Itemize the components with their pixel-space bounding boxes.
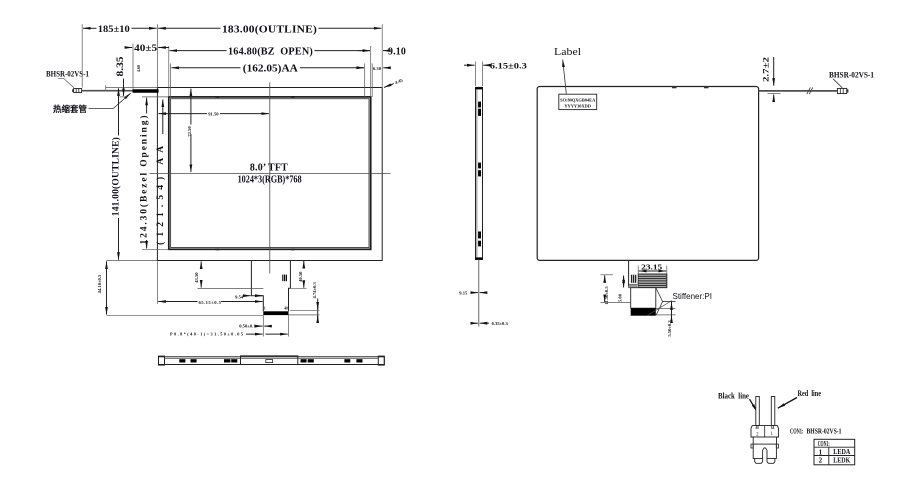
svg-text:40.50: 40.50 [298, 271, 303, 282]
svg-text:YYYY30XDD: YYYY30XDD [564, 104, 591, 109]
svg-text:1024*3(RGB)*768: 1024*3(RGB)*768 [238, 175, 302, 186]
svg-text:9.10: 9.10 [388, 46, 406, 58]
svg-text:185±10: 185±10 [98, 25, 130, 35]
svg-text:65.15±0.5: 65.15±0.5 [198, 300, 221, 305]
svg-text:1: 1 [819, 448, 823, 456]
svg-text:164.80(BZ OPEN): 164.80(BZ OPEN) [228, 46, 313, 58]
svg-text:2.7±2: 2.7±2 [760, 57, 770, 82]
svg-text:6.35±0.3: 6.35±0.3 [492, 321, 509, 326]
svg-text:91.50: 91.50 [208, 111, 219, 116]
svg-text:43.50: 43.50 [194, 272, 199, 283]
svg-text:40±5: 40±5 [134, 44, 157, 54]
svg-text:6.15±0.3: 6.15±0.3 [490, 60, 527, 70]
svg-text:9.54: 9.54 [235, 294, 244, 299]
svg-text:1: 1 [264, 307, 266, 311]
svg-text:4.60: 4.60 [136, 65, 141, 72]
svg-text:BHSR-02VS-1: BHSR-02VS-1 [829, 70, 874, 79]
svg-text:Red line: Red line [798, 388, 822, 398]
svg-text:0.50±0.1: 0.50±0.1 [239, 323, 256, 328]
svg-text:(162.05)AA: (162.05)AA [243, 64, 298, 75]
svg-text:11.50±0.5: 11.50±0.5 [604, 286, 609, 305]
svg-text:44.10±0.5: 44.10±0.5 [97, 274, 102, 293]
svg-text:LEDK: LEDK [833, 456, 850, 464]
svg-text:8.0’ TFT: 8.0’ TFT [250, 162, 288, 174]
svg-text:4.45: 4.45 [394, 77, 404, 85]
svg-text:BHSR-02VS-1: BHSR-02VS-1 [46, 70, 89, 79]
svg-text:40: 40 [284, 307, 288, 311]
svg-text:6.30: 6.30 [373, 66, 382, 71]
svg-text:183.00(OUTLINE): 183.00(OUTLINE) [222, 23, 317, 35]
svg-text:72.50: 72.50 [187, 126, 192, 137]
svg-text:(121.54) AA: (121.54) AA [155, 146, 166, 245]
svg-text:Stiffener:PI: Stiffener:PI [673, 292, 712, 301]
svg-text:P0.8*(40-1)=31.50±0.05: P0.8*(40-1)=31.50±0.05 [170, 331, 243, 336]
svg-text:9.15: 9.15 [459, 290, 468, 295]
svg-text:141.00(OUTLINE): 141.00(OUTLINE) [111, 137, 122, 216]
svg-text:CON1:: CON1: [818, 441, 830, 448]
svg-text:5.00: 5.00 [618, 293, 623, 302]
svg-text:SO:80QXGB04EA: SO:80QXGB04EA [560, 98, 596, 103]
svg-text:CON1:: CON1: [790, 429, 804, 436]
svg-text:Label: Label [554, 47, 581, 58]
svg-text:124.30(Bezel Opening): 124.30(Bezel Opening) [139, 116, 150, 245]
svg-text:8.35: 8.35 [116, 56, 126, 76]
svg-text:5.50±0.3: 5.50±0.3 [667, 320, 672, 337]
svg-text:23.15: 23.15 [641, 262, 662, 271]
svg-text:Black line: Black line [718, 390, 749, 400]
svg-text:BHSR-02VS-1: BHSR-02VS-1 [807, 429, 843, 436]
svg-text:热缩套管: 热缩套管 [53, 103, 87, 114]
svg-text:2: 2 [819, 457, 823, 465]
svg-text:4.74±0.3: 4.74±0.3 [312, 281, 317, 298]
svg-text:LEDA: LEDA [833, 448, 850, 456]
